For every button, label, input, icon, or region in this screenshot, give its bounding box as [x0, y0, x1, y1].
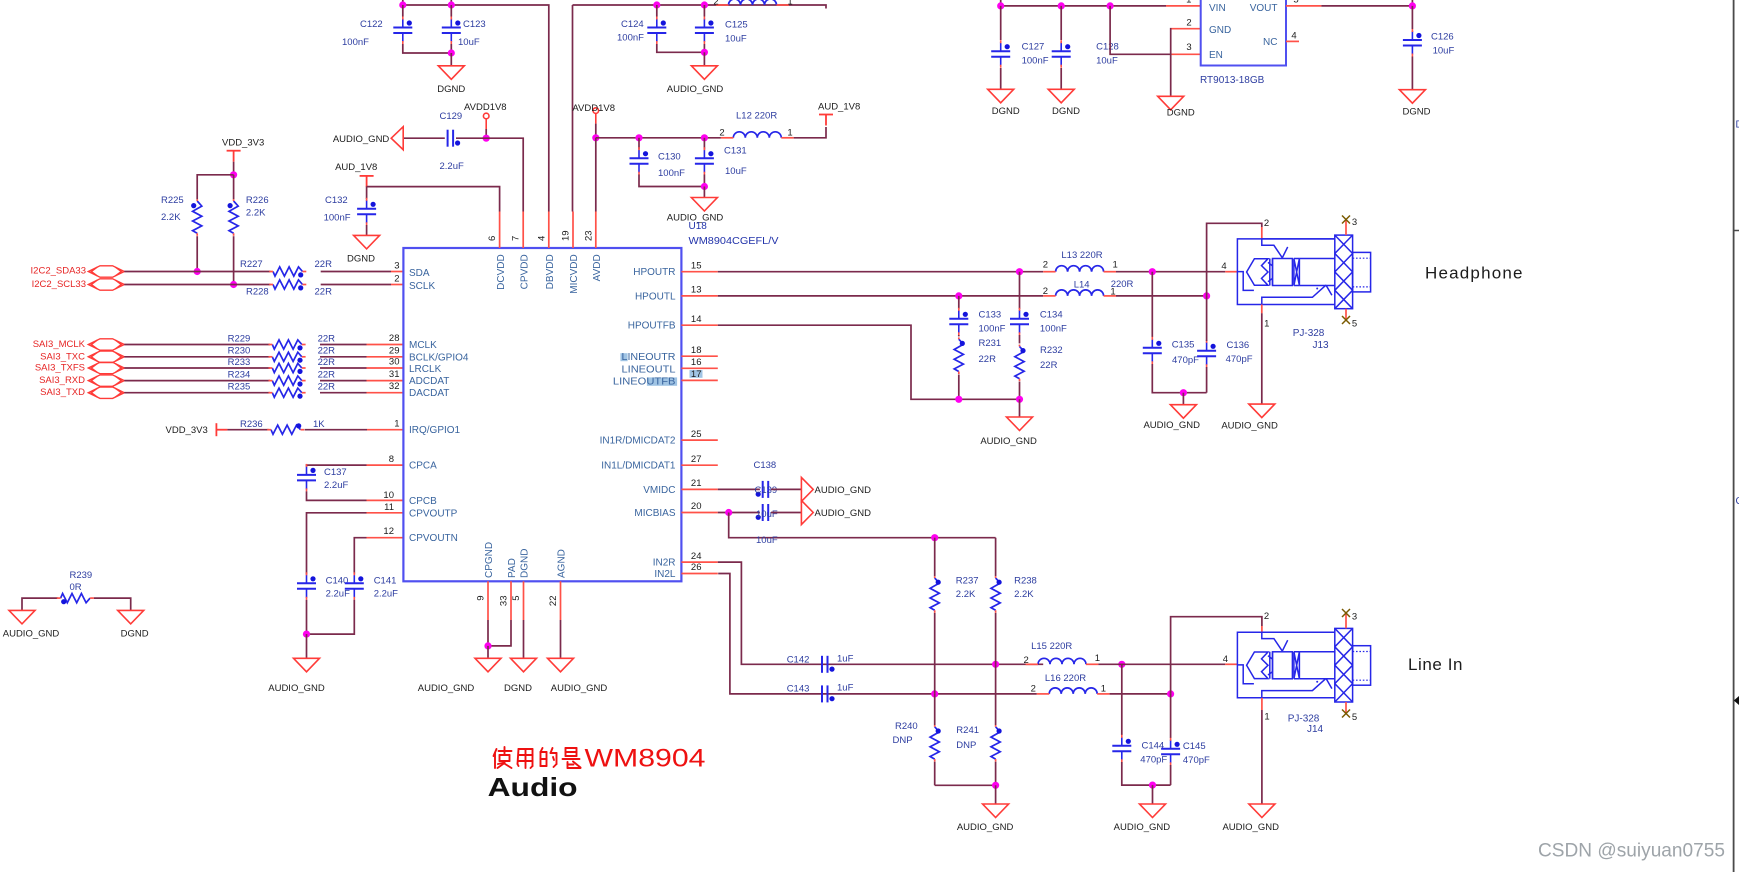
- junction C125 gnd: [701, 49, 708, 56]
- ground DGND C127: [988, 89, 1014, 103]
- wire SAI3_TXFS to pin: [320, 367, 367, 369]
- pin 3 J13 stub: [1345, 219, 1347, 236]
- ground DGND RT9013: [1158, 96, 1184, 110]
- svg-text:24: 24: [691, 551, 702, 562]
- wire C132 to DGND: [366, 225, 368, 235]
- wire C134 to R232: [1019, 335, 1021, 343]
- svg-text:C140: C140: [326, 575, 349, 586]
- svg-text:WM8904: WM8904: [585, 745, 706, 773]
- frame border right: [1733, 0, 1735, 872]
- svg-text:AUDIO_GND: AUDIO_GND: [333, 134, 390, 145]
- svg-text:470pF: 470pF: [1172, 355, 1199, 366]
- resistor R237 symbol: [930, 576, 941, 613]
- capacitor C133 symbol: [949, 308, 968, 336]
- no-connect X pin5 J14: [1342, 710, 1350, 718]
- svg-text:SDA: SDA: [409, 268, 430, 279]
- svg-text:3: 3: [1186, 42, 1191, 53]
- svg-text:6: 6: [487, 236, 498, 241]
- svg-text:AUDIO_GND: AUDIO_GND: [1114, 822, 1171, 833]
- power VDD_3V3 top: [227, 151, 241, 162]
- junction R237 IN2L: [931, 690, 938, 697]
- pin 28 stub: [367, 344, 404, 346]
- wire VMIDC net: [718, 488, 760, 490]
- svg-text:AUDIO_GND: AUDIO_GND: [1222, 822, 1279, 833]
- ground AUDIO_GND AGND: [548, 658, 574, 672]
- svg-text:10uF: 10uF: [1433, 46, 1455, 57]
- svg-text:AUDIO_GND: AUDIO_GND: [980, 436, 1037, 447]
- junction C144 IN2R: [1118, 661, 1125, 668]
- wire C133 to R231: [958, 335, 960, 336]
- svg-text:25: 25: [691, 429, 702, 440]
- pin 19 MICVDD stub: [572, 212, 574, 249]
- pin 22 AGND stub: [560, 581, 562, 620]
- svg-text:1: 1: [1186, 0, 1191, 6]
- wire SAI3_TXC to pin: [320, 356, 367, 358]
- wire C134 drop: [1019, 272, 1021, 309]
- capacitor C130 symbol: [630, 147, 649, 175]
- power AVDD1V8 right: [593, 108, 599, 124]
- svg-text:5: 5: [1352, 712, 1357, 723]
- svg-text:C129: C129: [440, 111, 463, 122]
- junction CPGND gnd: [484, 642, 491, 649]
- inductor L12: [721, 132, 794, 138]
- svg-text:R240: R240: [895, 721, 918, 732]
- svg-text:C132: C132: [325, 195, 348, 206]
- svg-text:DGND: DGND: [1403, 107, 1431, 118]
- port SAI3_TXD: [88, 387, 124, 398]
- svg-text:SAI3_TXC: SAI3_TXC: [40, 351, 85, 362]
- svg-text:2: 2: [394, 273, 399, 284]
- pin 9 CPGND stub: [487, 581, 489, 620]
- wire AVDD1V8 top rail: [573, 5, 827, 9]
- wire R226 to SCLK: [233, 236, 235, 284]
- junction MICBIAS: [725, 509, 732, 516]
- resistor R228 symbol: [269, 280, 306, 291]
- svg-text:0R: 0R: [70, 582, 82, 593]
- svg-text:10uF: 10uF: [756, 509, 778, 520]
- pin 21 stub: [681, 488, 717, 490]
- no-connect X pin5 J13: [1342, 316, 1350, 324]
- svg-text:31: 31: [389, 369, 400, 380]
- svg-text:5: 5: [1352, 319, 1357, 330]
- wire C122 top lead: [402, 5, 404, 17]
- ground AUDIO_GND C129: [391, 127, 403, 150]
- wire C131 top lead: [703, 138, 705, 149]
- pin 7 CPVDD stub: [522, 212, 524, 249]
- wire C130 top lead: [638, 138, 640, 149]
- svg-text:MCLK: MCLK: [409, 340, 437, 351]
- svg-text:AVDD1V8: AVDD1V8: [572, 103, 615, 114]
- annotation CJK text 使用的是WM8904 (vector): [494, 747, 581, 768]
- svg-text:IN2R: IN2R: [653, 558, 676, 569]
- wire AVDD pin23 drop: [595, 138, 597, 212]
- junction AVDD at C130 rail: [592, 134, 599, 141]
- ground AUDIO_GND C130 C131: [691, 198, 717, 212]
- capacitor C140 symbol: [297, 572, 316, 600]
- wire AVDD to L12: [596, 137, 721, 139]
- junction C140 C141 gnd: [303, 631, 310, 638]
- wire C145 drop: [1170, 694, 1172, 738]
- wire R240 to rail: [934, 762, 936, 786]
- wire CPVOUTN to C141: [354, 538, 366, 574]
- wire C139 to gnd tri: [771, 512, 801, 514]
- wire C138 to gnd tri: [771, 488, 801, 490]
- junction C136 HPOUTL: [1203, 292, 1210, 299]
- svg-text:4: 4: [1221, 261, 1226, 272]
- wire C144 drop: [1121, 664, 1123, 735]
- svg-text:470pF: 470pF: [1183, 755, 1210, 766]
- wire MICBIAS net: [718, 512, 760, 514]
- svg-text:28: 28: [389, 333, 400, 344]
- wire L16 to riser: [1110, 693, 1171, 695]
- junction C129 AVDD1V8: [483, 135, 490, 142]
- svg-text:C131: C131: [724, 146, 747, 157]
- svg-text:1: 1: [1110, 286, 1115, 297]
- ground AUDIO_GND C140 C141: [294, 658, 320, 672]
- svg-text:22: 22: [548, 596, 559, 607]
- pin 1 J13 stub: [1261, 305, 1263, 314]
- wire CPCA to C137: [307, 464, 367, 467]
- wire SAI3_TXC net: [124, 356, 270, 358]
- wire R232 to rail: [1019, 382, 1021, 400]
- port SAI3_TXFS: [88, 362, 124, 373]
- svg-text:SAI3_TXFS: SAI3_TXFS: [35, 363, 85, 374]
- pin 16 stub: [681, 367, 717, 369]
- svg-text:22R: 22R: [315, 286, 333, 297]
- svg-text:100nF: 100nF: [617, 33, 644, 44]
- svg-text:LINEOUTR: LINEOUTR: [622, 352, 676, 363]
- svg-text:C123: C123: [463, 19, 486, 30]
- wire CPGND PAD tie: [488, 620, 511, 646]
- svg-text:2.2uF: 2.2uF: [326, 589, 350, 600]
- junction C135 tap: [1149, 268, 1156, 275]
- ground AUDIO_GND C124 C125: [691, 66, 717, 80]
- wire C127 top lead: [1000, 6, 1002, 40]
- svg-text:8: 8: [389, 454, 394, 465]
- pin 2 GND stub: [1172, 28, 1201, 30]
- wire C125 top lead: [703, 5, 705, 17]
- svg-text:VDD_3V3: VDD_3V3: [166, 425, 208, 436]
- wire to AUDIO_GND4: [1182, 393, 1184, 405]
- svg-text:CPCB: CPCB: [409, 496, 437, 507]
- pin 1 VIN stub: [1166, 5, 1201, 7]
- wire J14 pin1 to gnd: [1261, 710, 1263, 804]
- wire DCVDD net: [367, 187, 500, 212]
- junction C131 gnd: [701, 183, 708, 190]
- wire CPGND to AUDIO_GND: [487, 646, 489, 658]
- pin 5 DGND stub: [523, 581, 525, 620]
- svg-text:BCLK/GPIO4: BCLK/GPIO4: [409, 352, 469, 363]
- svg-text:2.2K: 2.2K: [161, 212, 181, 223]
- svg-text:2: 2: [1031, 684, 1036, 695]
- svg-text:2: 2: [713, 0, 718, 8]
- wire C136 drop: [1206, 296, 1208, 341]
- svg-text:18: 18: [691, 345, 702, 356]
- resistor R232 symbol: [1015, 345, 1026, 382]
- pin 2 J13 stub: [1261, 227, 1263, 239]
- svg-text:1: 1: [1101, 684, 1106, 695]
- svg-text:AUDIO_GND: AUDIO_GND: [667, 84, 724, 95]
- wire SAI3_TXFS net: [124, 367, 270, 369]
- capacitor C131 symbol: [695, 147, 714, 175]
- wire C128 to DGND: [1060, 68, 1062, 89]
- pin 10 CPCB stub: [367, 499, 404, 501]
- resistor R227 symbol: [269, 267, 306, 278]
- resistor R225 symbol: [191, 199, 202, 236]
- wire C145 to rail: [1170, 765, 1172, 785]
- wire to AUDIO_GND5: [995, 785, 997, 804]
- pin 23 AVDD stub: [595, 212, 597, 249]
- wire CPVOUTP to C140: [307, 513, 367, 574]
- svg-text:2: 2: [1186, 18, 1191, 29]
- highlight pin17: [690, 370, 703, 378]
- junction C134 tap HPOUTR: [1016, 268, 1023, 275]
- svg-text:EN: EN: [1209, 50, 1223, 61]
- wire HPOUTL up to jack pin2: [1207, 223, 1262, 296]
- resistor R230 symbol: [269, 352, 306, 363]
- svg-text:22R: 22R: [318, 382, 336, 393]
- svg-text:CSDN @suiyuan0755: CSDN @suiyuan0755: [1538, 840, 1725, 862]
- svg-text:VIN: VIN: [1209, 3, 1226, 14]
- wire C122 C123 bottom rail: [403, 44, 452, 53]
- no-connect X pin3 J13: [1342, 216, 1350, 224]
- svg-text:DBVDD: DBVDD: [545, 254, 556, 289]
- wire MICVDD drop: [572, 5, 574, 212]
- svg-text:HPOUTL: HPOUTL: [635, 291, 676, 302]
- inductor L15 symbol: [1026, 658, 1099, 664]
- svg-text:Headphone: Headphone: [1425, 264, 1523, 283]
- svg-text:IRQ/GPIO1: IRQ/GPIO1: [409, 425, 461, 436]
- pin 4 DBVDD stub: [548, 212, 550, 249]
- capacitor C137 symbol: [297, 464, 316, 492]
- pin 25 stub: [681, 439, 717, 441]
- svg-text:Line In: Line In: [1408, 655, 1463, 674]
- wire R236 to pin1: [305, 429, 367, 431]
- svg-text:HPOUTFB: HPOUTFB: [628, 321, 676, 332]
- svg-text:21: 21: [691, 478, 702, 489]
- svg-text:R227: R227: [240, 259, 263, 270]
- capacitor C144 symbol: [1112, 735, 1131, 763]
- ground AUDIO_GND R239: [9, 610, 35, 624]
- wire C128 top lead: [1060, 6, 1062, 40]
- wire J13 pin1 to gnd: [1261, 313, 1263, 404]
- svg-text:22R: 22R: [979, 354, 997, 365]
- wire C124 C125 bottom rail: [657, 44, 705, 52]
- svg-text:470pF: 470pF: [1226, 354, 1253, 365]
- capacitor C136 symbol: [1197, 340, 1216, 368]
- svg-text:AUD_1V8: AUD_1V8: [818, 102, 860, 113]
- ground DGND C128: [1048, 89, 1074, 103]
- junction C125 tap: [701, 1, 708, 8]
- svg-text:1: 1: [1095, 653, 1100, 664]
- junction DBVDD-C123: [448, 1, 455, 8]
- svg-text:DGND: DGND: [520, 549, 531, 578]
- pin 32 stub: [367, 392, 404, 394]
- svg-text:29: 29: [389, 345, 400, 356]
- wire SAI3_RXD net: [124, 380, 270, 382]
- pin 12 CPVOUTN stub: [367, 537, 404, 539]
- junction C133 HPOUTL: [955, 292, 962, 299]
- resistor R229 symbol: [269, 340, 306, 351]
- resistor R239 symbol: [57, 594, 94, 605]
- svg-text:I2C2_SDA33: I2C2_SDA33: [31, 266, 86, 277]
- wire SDA to pin3: [321, 271, 391, 273]
- svg-text:10uF: 10uF: [725, 34, 747, 45]
- wire C136 to rail: [1206, 367, 1208, 393]
- resistor R234 symbol: [269, 376, 306, 387]
- pin 11 CPVOUTP stub: [367, 512, 404, 514]
- svg-text:R232: R232: [1040, 345, 1063, 356]
- resistor R238 symbol: [991, 576, 1002, 613]
- pin 24 stub: [681, 561, 717, 563]
- svg-text:SAI3_MCLK: SAI3_MCLK: [33, 339, 86, 350]
- ground AUDIO_GND VMIDC: [801, 477, 813, 501]
- pin 4 NC stub: [1286, 40, 1299, 42]
- port SAI3_MCLK: [88, 339, 124, 350]
- svg-text:SAI3_RXD: SAI3_RXD: [39, 375, 85, 386]
- svg-text:2.2K: 2.2K: [1014, 589, 1034, 600]
- power AUD_1V8 left: [360, 176, 374, 187]
- ground DGND R239: [118, 610, 144, 624]
- svg-text:2: 2: [719, 128, 724, 139]
- wire AUDIO_GND to R239: [22, 598, 58, 610]
- svg-text:27: 27: [691, 454, 702, 465]
- wire C125 bottom lead: [703, 44, 705, 52]
- svg-text:DGND: DGND: [1167, 108, 1195, 119]
- junction C124 tap: [653, 1, 660, 8]
- capacitor C135 symbol: [1143, 337, 1162, 365]
- svg-text:IN1R/DMICDAT2: IN1R/DMICDAT2: [600, 436, 676, 447]
- wire SDA net: [124, 271, 270, 273]
- wire EN from VIN: [1110, 6, 1170, 54]
- wire R239 to DGND: [94, 598, 131, 610]
- wire IN2L up to jack pin2: [1171, 617, 1262, 694]
- svg-text:HPOUTR: HPOUTR: [633, 267, 675, 278]
- svg-text:LINEOUTL: LINEOUTL: [622, 364, 676, 375]
- svg-text:1: 1: [787, 0, 792, 8]
- junction EN riser: [1107, 2, 1114, 9]
- wire AVDD1V8 left stub: [485, 129, 487, 138]
- svg-text:100nF: 100nF: [1022, 56, 1049, 67]
- junction C130 tap: [635, 134, 642, 141]
- svg-text:J13: J13: [1313, 340, 1330, 351]
- svg-text:22R: 22R: [318, 357, 336, 368]
- svg-text:1uF: 1uF: [837, 653, 854, 664]
- svg-text:CPCA: CPCA: [409, 461, 437, 472]
- wire C141 to rail: [307, 600, 355, 634]
- svg-text:C139: C139: [755, 485, 778, 496]
- svg-text:22R: 22R: [315, 259, 333, 270]
- svg-text:1: 1: [1264, 712, 1269, 723]
- capacitor C129 symbol: [448, 130, 461, 147]
- ground AUDIO_GND C144 C145: [1140, 804, 1166, 818]
- wire AVDD1V8 right stub: [595, 124, 597, 138]
- svg-text:10uF: 10uF: [1096, 56, 1118, 67]
- svg-text:1: 1: [1264, 319, 1269, 330]
- wire C123 bottom lead: [450, 44, 452, 53]
- IC U18 WM8904 box: [403, 248, 681, 581]
- ground AUDIO_GND fb: [1007, 417, 1033, 431]
- resistor R233 symbol: [269, 363, 306, 374]
- pin 4 J14 stub: [1225, 663, 1237, 665]
- wire C123 riser top: [450, 0, 452, 5]
- capacitor C125 symbol: [695, 17, 714, 45]
- svg-text:C128: C128: [1096, 42, 1119, 53]
- capacitor C143 symbol: [822, 685, 835, 702]
- frame tick: [1734, 230, 1739, 232]
- port I2C2_SCL33: [88, 279, 124, 290]
- pin 13 stub: [681, 295, 717, 297]
- wire to R225 top: [197, 175, 233, 199]
- svg-text:AGND: AGND: [557, 549, 568, 578]
- svg-text:2.2uF: 2.2uF: [324, 480, 348, 491]
- capacitor C122 symbol: [393, 17, 412, 45]
- svg-text:D: D: [1736, 120, 1739, 131]
- pin 4 J13 stub: [1225, 271, 1237, 273]
- svg-text:DGND: DGND: [992, 106, 1020, 117]
- svg-text:5: 5: [1293, 0, 1298, 6]
- pin 8 CPCA stub: [367, 464, 404, 466]
- svg-text:AUD_1V8: AUD_1V8: [335, 162, 377, 173]
- wire to AUDIO_GND1: [703, 52, 705, 66]
- junction C135 C136 gnd: [1180, 389, 1187, 396]
- svg-text:14: 14: [691, 314, 702, 325]
- svg-text:I2C2_SCL33: I2C2_SCL33: [32, 279, 86, 290]
- svg-text:22R: 22R: [318, 333, 336, 344]
- wire C140 to rail: [306, 600, 308, 634]
- highlight LINEOUTR L: [620, 353, 627, 361]
- svg-text:470pF: 470pF: [1140, 754, 1167, 765]
- pin 3 EN stub: [1170, 53, 1201, 55]
- svg-text:7: 7: [511, 236, 522, 241]
- ground AUDIO_GND MICBIAS: [801, 501, 813, 525]
- svg-text:LINEOUTFB: LINEOUTFB: [613, 376, 676, 387]
- svg-text:33: 33: [499, 596, 510, 607]
- wire L14 to riser: [1116, 295, 1207, 297]
- svg-text:C138: C138: [754, 460, 777, 471]
- svg-text:R237: R237: [956, 576, 979, 587]
- pin 14 stub: [681, 324, 717, 326]
- svg-text:12: 12: [383, 526, 394, 537]
- svg-text:C127: C127: [1022, 42, 1045, 53]
- wire VDD_3V3 stub: [233, 162, 235, 175]
- svg-text:5: 5: [511, 596, 522, 601]
- pin 27 stub: [681, 464, 717, 466]
- svg-text:10uF: 10uF: [725, 166, 747, 177]
- svg-text:11: 11: [384, 502, 394, 513]
- pin 3 J14 stub: [1345, 612, 1347, 628]
- svg-text:22R: 22R: [318, 369, 336, 380]
- junction C128 tap: [1058, 2, 1065, 9]
- svg-text:C143: C143: [787, 683, 810, 694]
- svg-text:C126: C126: [1431, 32, 1454, 43]
- svg-text:DCVDD: DCVDD: [496, 254, 507, 290]
- wire AUD_1V8 stub: [366, 186, 368, 188]
- svg-text:4: 4: [536, 236, 547, 241]
- power AUD_1V8 right: [819, 115, 833, 126]
- svg-text:AUDIO_GND: AUDIO_GND: [418, 683, 475, 694]
- svg-text:CPVOUTN: CPVOUTN: [409, 533, 458, 544]
- svg-text:AUDIO_GND: AUDIO_GND: [551, 683, 608, 694]
- pin 17 stub: [681, 379, 717, 381]
- wire R231 to rail: [958, 375, 960, 400]
- wire SAI3_RXD to pin: [320, 380, 367, 382]
- ground AUDIO_GND CPGND: [475, 658, 501, 672]
- svg-text:10: 10: [383, 490, 394, 501]
- wire VDD to R236: [227, 429, 268, 431]
- svg-text:C137: C137: [324, 467, 347, 478]
- svg-text:2: 2: [1043, 286, 1048, 297]
